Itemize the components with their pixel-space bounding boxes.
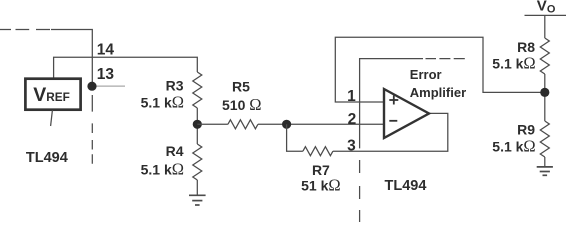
svg-text:Error: Error (410, 67, 442, 82)
svg-text:5.1 kΩ: 5.1 kΩ (141, 92, 184, 111)
resistor R9 zigzag (540, 121, 549, 157)
svg-text:3: 3 (347, 138, 356, 155)
svg-text:5.1 kΩ: 5.1 kΩ (492, 53, 535, 72)
output terminal VO (525, 0, 566, 15)
op-amp minus input mark (389, 120, 397, 122)
wire R8 to R9 (544, 74, 546, 121)
svg-text:510 Ω: 510 Ω (222, 95, 262, 114)
wire VO to R8 (544, 15, 546, 38)
wire R4 bottom to ground (196, 180, 198, 195)
ground (right) (537, 167, 553, 175)
op-amp U1 error amplifier triangle (384, 89, 429, 138)
svg-text:2: 2 (348, 111, 357, 128)
svg-text:5.1 kΩ: 5.1 kΩ (141, 160, 184, 179)
wire pin 3 line to op-amp output (333, 113, 448, 151)
op-amp plus input mark (389, 96, 398, 105)
wire mid rail: node to R5 (197, 123, 228, 125)
wire pin 1 feedback loop to R8/R9 divider (335, 37, 545, 102)
node junction dot R5/R7/pin2 (282, 120, 291, 129)
svg-text:R5: R5 (232, 79, 250, 95)
wire pin 13 gray stub (95, 85, 125, 87)
TL494 IC boundary left box, dashed right edge (91, 95, 93, 164)
block VREF (25, 79, 80, 110)
node junction dot pin 13 (87, 82, 96, 91)
TL494 IC boundary right box, top edge (360, 59, 465, 149)
svg-text:TL494: TL494 (385, 178, 427, 194)
TL494 IC boundary right box, dashed left edge (359, 160, 361, 222)
label Error Amplifier (410, 67, 466, 100)
svg-text:R4: R4 (166, 143, 184, 159)
svg-text:R7: R7 (312, 162, 330, 178)
svg-text:Amplifier: Amplifier (410, 85, 466, 100)
svg-text:1: 1 (347, 88, 356, 105)
resistor R4 zigzag (193, 144, 202, 180)
resistor R3 zigzag (193, 72, 202, 108)
ground (left) (189, 195, 206, 205)
wire node down to pin 3 line (287, 124, 303, 151)
svg-text:R9: R9 (517, 122, 535, 138)
svg-text:51 kΩ: 51 kΩ (301, 175, 341, 194)
node junction dot R8/R9/feedback (540, 88, 549, 97)
wire mid rail: R5 to op-amp pin 2 (258, 123, 384, 125)
node junction dot R3/R4/R5 (193, 120, 202, 129)
TL494 IC boundary left box, dashed top edge (0, 30, 92, 87)
svg-text:14: 14 (97, 42, 115, 59)
wire R9 bottom to ground (544, 157, 546, 167)
svg-text:5.1 kΩ: 5.1 kΩ (492, 137, 535, 156)
resistor R7 zigzag (303, 147, 333, 156)
resistor R8 zigzag (540, 38, 549, 74)
wire pin 14 rail from VREF top to R3 top (54, 57, 198, 78)
resistor R5 zigzag (228, 120, 258, 129)
svg-text:TL494: TL494 (26, 150, 68, 166)
wire R3 bottom to mid rail (196, 108, 198, 144)
svg-text:R3: R3 (166, 77, 184, 93)
wire VREF bottom stub (51, 110, 53, 126)
svg-text:13: 13 (97, 66, 115, 83)
